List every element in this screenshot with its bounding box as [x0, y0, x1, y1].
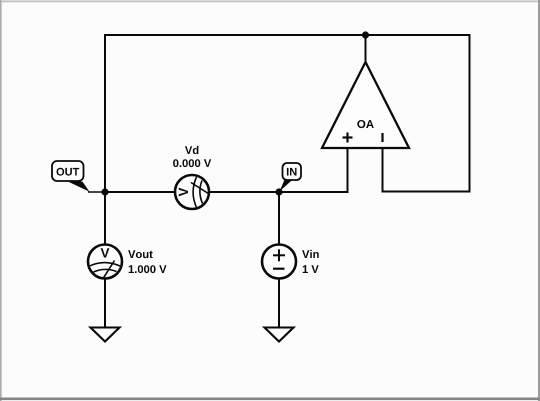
pin + positive terminal mark — [273, 249, 285, 261]
wire top rail (op-amp output net) — [104, 34, 470, 36]
wire inverting input stub — [382, 147, 384, 193]
node IN junction — [275, 188, 282, 195]
wire noninverting input stub — [347, 147, 349, 193]
wire op-amp output stub — [365, 34, 367, 63]
node flag OUT — [52, 161, 105, 192]
wire Vin vertical branch — [278, 191, 280, 328]
node flag IN — [280, 163, 301, 191]
label Vd value 0.000 V — [173, 159, 211, 167]
wire left vertical OUT branch — [104, 34, 106, 328]
wire main horizontal OUT to IN — [104, 191, 348, 193]
op-amp label OA — [357, 120, 374, 128]
label Vin name — [302, 250, 319, 258]
voltage source Vin — [262, 245, 296, 279]
op-amp U1 OA — [322, 62, 409, 148]
node junction at op-amp output — [362, 31, 369, 38]
label Vout name — [128, 250, 153, 258]
node OUT junction — [101, 188, 108, 195]
wire feedback bottom horizontal — [382, 191, 471, 193]
label Vd name — [185, 146, 199, 154]
pin - negative terminal mark — [273, 268, 285, 270]
ground GND1 — [91, 328, 120, 342]
voltmeter Vout — [88, 245, 122, 279]
label Vin value 1 V — [303, 265, 319, 273]
voltmeter Vd — [175, 175, 209, 209]
ground GND2 — [265, 328, 294, 342]
pin + noninverting input mark — [343, 133, 353, 143]
wire feedback right vertical — [469, 34, 471, 192]
label Vout value 1.000 V — [129, 265, 167, 273]
pin - inverting input mark — [381, 133, 383, 142]
